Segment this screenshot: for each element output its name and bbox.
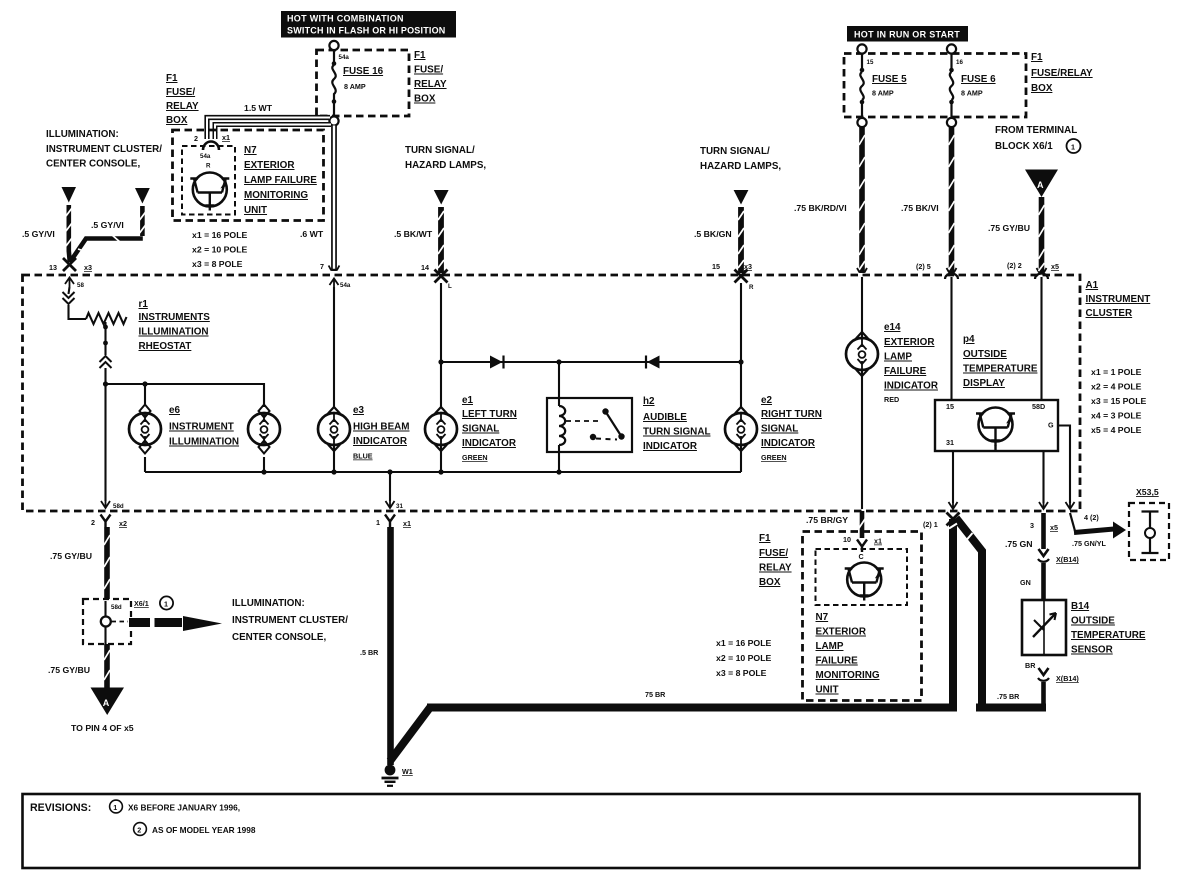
svg-text:58D: 58D: [1032, 402, 1045, 411]
svg-text:SIGNAL: SIGNAL: [462, 424, 499, 435]
svg-text:N7: N7: [816, 612, 829, 623]
svg-text:54a: 54a: [200, 153, 211, 160]
svg-text:INSTRUMENTS: INSTRUMENTS: [139, 312, 211, 323]
svg-text:FAILURE: FAILURE: [884, 366, 927, 377]
N7 exterior lamp failure monitoring unit (bottom) outer dashed box: [803, 532, 922, 701]
p4 temperature sensor wire down: [1042, 451, 1044, 503]
diode bus wire between turn signal circuits: [441, 361, 741, 363]
wire pin 15 down to right turn lamp: [740, 283, 742, 407]
svg-text:REVISIONS:: REVISIONS:: [30, 802, 91, 814]
svg-text:x2: x2: [119, 519, 127, 528]
svg-text:.5 BR: .5 BR: [360, 648, 379, 657]
label e2 RIGHT TURN SIGNAL INDICATOR GREEN: [761, 395, 822, 462]
svg-text:31: 31: [946, 438, 954, 447]
svg-text:TURN SIGNAL: TURN SIGNAL: [643, 427, 710, 438]
svg-text:16: 16: [956, 59, 963, 66]
svg-text:SENSOR: SENSOR: [1071, 645, 1113, 656]
svg-text:31: 31: [396, 503, 403, 510]
svg-text:(2) 5: (2) 5: [916, 262, 931, 271]
label B14 OUTSIDE TEMPERATURE SENSOR: [1071, 601, 1146, 656]
legend x1/x2/x3 poles (left): [192, 230, 247, 269]
svg-text:CENTER CONSOLE,: CENTER CONSOLE,: [232, 632, 326, 643]
fuse F6 terminal circle top: [947, 44, 956, 53]
svg-text:.75 GN/YL: .75 GN/YL: [1072, 539, 1107, 548]
svg-text:54a: 54a: [340, 282, 351, 289]
ground wire diagonal up to 75 BR bus: [390, 708, 430, 762]
wire fuse6 branch down to p4 pin 15: [950, 277, 952, 400]
arrowheads into bottom edge: [949, 500, 958, 509]
svg-text:.75 GN: .75 GN: [1005, 539, 1033, 549]
svg-text:10: 10: [843, 535, 851, 544]
svg-text:e2: e2: [761, 395, 772, 406]
N7 exterior lamp failure monitoring unit (top) outer dashed box: [173, 130, 324, 221]
label e3 HIGH BEAM INDICATOR BLUE: [353, 405, 410, 461]
legend x1/x2/x3 poles (bottom): [716, 638, 771, 678]
svg-text:x1 = 16 POLE: x1 = 16 POLE: [716, 638, 771, 648]
pin 1 arrow and label 31 above bottom edge: [386, 499, 395, 508]
svg-text:F1: F1: [1031, 52, 1043, 63]
svg-text:x2 = 10 POLE: x2 = 10 POLE: [192, 245, 247, 255]
pin Y connector at pin 1: [385, 515, 395, 528]
lamp e1 left turn signal indicator: [425, 407, 457, 472]
svg-text:SIGNAL: SIGNAL: [761, 424, 798, 435]
svg-text:e14: e14: [884, 322, 901, 333]
N7 pin semicircle connector (pins 2 / x1): [203, 142, 219, 151]
connector X at pin 14: [435, 270, 448, 283]
wire .5 GY/VI (right): [70, 206, 146, 262]
svg-text:.75 GY/BU: .75 GY/BU: [50, 551, 92, 561]
wire bus to instrument illumination lamps: [106, 384, 265, 407]
connector X below pin (2)1: [947, 513, 960, 526]
svg-text:1: 1: [1071, 143, 1075, 152]
svg-text:FAILURE: FAILURE: [816, 656, 859, 667]
label FROM TERMINAL BLOCK X6/1: [995, 125, 1077, 152]
svg-text:RHEOSTAT: RHEOSTAT: [139, 341, 192, 352]
svg-text:INDICATOR: INDICATOR: [761, 438, 815, 449]
svg-text:N7: N7: [244, 145, 257, 156]
svg-text:AS OF MODEL YEAR 1998: AS OF MODEL YEAR 1998: [152, 825, 256, 835]
svg-text:BR: BR: [1025, 661, 1036, 670]
svg-text:X53,5: X53,5: [1136, 487, 1159, 497]
wire through X6/1: [104, 601, 106, 617]
lamp e3 high beam indicator: [318, 407, 350, 472]
svg-text:FUSE 6: FUSE 6: [961, 74, 996, 85]
svg-text:L: L: [448, 283, 452, 290]
svg-text:FUSE/: FUSE/: [759, 548, 788, 559]
off-page triangle (illumination left): [62, 187, 77, 203]
thick wire from pin (2)1 down to ground bus: [949, 519, 957, 704]
svg-text:15: 15: [946, 402, 954, 411]
svg-text:x2 = 10 POLE: x2 = 10 POLE: [716, 653, 771, 663]
svg-text:G: G: [1048, 421, 1054, 430]
wire fuse5 branch down to e14 lamp: [861, 277, 863, 338]
svg-text:.75 BR/GY: .75 BR/GY: [806, 515, 848, 525]
svg-text:ILLUMINATION: ILLUMINATION: [169, 437, 239, 448]
svg-text:8 AMP: 8 AMP: [961, 89, 983, 98]
label A1 INSTRUMENT CLUSTER: [1086, 280, 1151, 319]
svg-text:4 (2): 4 (2): [1084, 513, 1099, 522]
hatch marks on thick wires: [949, 524, 973, 541]
terminal circle below fuse box: [329, 116, 338, 125]
svg-text:INDICATOR: INDICATOR: [462, 438, 516, 449]
wire 1.5 WT outlined pair from fuse to N7 pins: [207, 118, 331, 140]
svg-text:RELAY: RELAY: [166, 101, 199, 112]
svg-text:.75 BK/VI: .75 BK/VI: [901, 203, 939, 213]
lamp e6 instrument illumination (left bulb): [129, 405, 161, 473]
svg-text:INSTRUMENT CLUSTER/: INSTRUMENT CLUSTER/: [232, 615, 348, 626]
wire pin 7 down to high beam lamp: [333, 287, 335, 407]
connector X crossing at pin 13: [63, 258, 76, 271]
svg-text:A: A: [1037, 180, 1044, 190]
fuse F16 element: [332, 50, 337, 116]
svg-text:RIGHT TURN: RIGHT TURN: [761, 409, 822, 420]
svg-text:INSTRUMENT: INSTRUMENT: [169, 422, 234, 433]
wire .75 GY/BU from X6/1 to triangle A: [104, 644, 110, 688]
connector X(B14) lower: [1038, 668, 1049, 681]
wire bus drop to pin 1: [389, 472, 391, 501]
svg-text:e1: e1: [462, 395, 473, 406]
label ILLUMINATION: INSTRUMENT CLUSTER/ CENTER CONSOLE. (bottom): [232, 598, 348, 643]
svg-text:DISPLAY: DISPLAY: [963, 378, 1005, 389]
svg-text:FUSE 5: FUSE 5: [872, 74, 907, 85]
svg-text:LAMP: LAMP: [816, 641, 844, 652]
wire .5 BK/GN: [738, 207, 744, 273]
diode D2 (right, pointing left): [646, 356, 660, 369]
svg-text:15: 15: [867, 59, 874, 66]
wire .75 BK/VI from fuse 6 down to cluster: [949, 127, 955, 273]
svg-text:58: 58: [77, 282, 84, 289]
wire .75 GY/BU from pin 2 to connector X6/1: [104, 527, 110, 599]
cup connector at pin (2)5: [945, 274, 958, 280]
connector X53/5 dashed box: [1129, 503, 1169, 560]
svg-text:LEFT TURN: LEFT TURN: [462, 409, 517, 420]
wire down from bus to lamp e6a: [144, 384, 146, 406]
svg-text:1.5 WT: 1.5 WT: [244, 103, 273, 113]
transistor inside p4: [976, 408, 1015, 452]
svg-text:MONITORING: MONITORING: [816, 670, 880, 681]
label ILLUMINATION: INSTRUMENT CLUSTER/ CENTER CONSOLE. (top left): [46, 129, 162, 170]
svg-text:.75 BK/RD/VI: .75 BK/RD/VI: [794, 203, 847, 213]
svg-text:BOX: BOX: [414, 94, 436, 105]
svg-text:TURN SIGNAL/: TURN SIGNAL/: [700, 146, 770, 157]
lamp e6 instrument illumination (right bulb): [248, 405, 280, 473]
svg-text:1: 1: [164, 600, 168, 609]
label h2 AUDIBLE TURN SIGNAL INDICATOR: [643, 396, 710, 452]
svg-text:2: 2: [194, 134, 198, 143]
svg-text:LAMP: LAMP: [884, 352, 912, 363]
svg-text:A1: A1: [1086, 280, 1099, 291]
svg-text:RED: RED: [884, 395, 899, 404]
label F1 FUSE/RELAY BOX (top right): [1031, 52, 1093, 94]
svg-text:(2) 1: (2) 1: [923, 520, 938, 529]
off-page triangle turn signal left: [434, 190, 449, 205]
svg-text:F1: F1: [166, 73, 178, 84]
svg-text:HOT WITH COMBINATION: HOT WITH COMBINATION: [287, 14, 404, 24]
svg-text:HAZARD LAMPS,: HAZARD LAMPS,: [405, 160, 486, 171]
diode D1 (left, pointing right): [490, 356, 504, 369]
wire illumination branch down to p4 pin 58d: [1040, 277, 1042, 400]
svg-text:INSTRUMENT: INSTRUMENT: [1086, 294, 1151, 305]
wire .5 BR thick from pin 1 to ground: [387, 527, 394, 765]
svg-text:TURN SIGNAL/: TURN SIGNAL/: [405, 145, 475, 156]
svg-text:54a: 54a: [339, 54, 350, 61]
off-page triangle A (from terminal block): [1025, 170, 1058, 198]
svg-text:.75 BR: .75 BR: [997, 692, 1020, 701]
svg-text:75 BR: 75 BR: [645, 690, 666, 699]
svg-text:x5 = 4 POLE: x5 = 4 POLE: [1091, 425, 1142, 435]
svg-text:CLUSTER: CLUSTER: [1086, 308, 1133, 319]
svg-text:F1: F1: [414, 50, 426, 61]
thick branch wire diagonal to second vertical: [956, 518, 982, 704]
svg-text:x1 = 1 POLE: x1 = 1 POLE: [1091, 367, 1142, 377]
svg-text:HOT IN RUN OR START: HOT IN RUN OR START: [854, 30, 960, 40]
wire .75 BR from sensor to ground bus: [1041, 682, 1046, 706]
svg-text:INDICATOR: INDICATOR: [884, 381, 938, 392]
svg-text:RELAY: RELAY: [759, 563, 792, 574]
N7 pin 10 cup connector: [857, 540, 867, 553]
svg-text:15: 15: [712, 262, 720, 271]
wire from pin 13 to rheostat with connector chevrons: [63, 287, 87, 319]
svg-text:x1: x1: [403, 519, 411, 528]
cup connector at pin (2)2: [1035, 274, 1048, 280]
svg-text:MONITORING: MONITORING: [244, 190, 308, 201]
svg-text:58d: 58d: [111, 604, 122, 611]
svg-text:BLUE: BLUE: [353, 452, 373, 461]
svg-text:x3: x3: [744, 262, 752, 271]
h2 coil on vertical wire: [559, 362, 565, 472]
svg-text:FUSE/: FUSE/: [166, 87, 195, 98]
svg-text:BOX: BOX: [759, 577, 781, 588]
fuse/relay box F1 (top right, dashed): [844, 54, 1026, 118]
label p4 OUTSIDE TEMPERATURE DISPLAY: [963, 334, 1038, 389]
label r1 INSTRUMENTS ILLUMINATION RHEOSTAT: [139, 299, 211, 352]
svg-text:LAMP FAILURE: LAMP FAILURE: [244, 175, 317, 186]
svg-text:HIGH BEAM: HIGH BEAM: [353, 422, 410, 433]
X53/5 internal connector symbol: [1142, 512, 1159, 554]
svg-text:INDICATOR: INDICATOR: [353, 436, 407, 447]
legend x1..x5 poles (right): [1091, 367, 1146, 435]
svg-text:BLOCK X6/1: BLOCK X6/1: [995, 141, 1053, 152]
svg-text:EXTERIOR: EXTERIOR: [244, 160, 294, 171]
terminal 58 arrow below pin 13: [65, 278, 74, 288]
svg-text:ILLUMINATION: ILLUMINATION: [139, 327, 209, 338]
svg-text:EXTERIOR: EXTERIOR: [884, 337, 934, 348]
svg-text:13: 13: [49, 263, 57, 272]
svg-text:CENTER CONSOLE,: CENTER CONSOLE,: [46, 159, 140, 170]
svg-text:x1 = 16 POLE: x1 = 16 POLE: [192, 230, 247, 240]
svg-text:UNIT: UNIT: [816, 685, 839, 696]
svg-text:UNIT: UNIT: [244, 205, 267, 216]
svg-text:x1: x1: [222, 133, 230, 142]
wire pin 14 down to left turn lamp: [440, 283, 442, 407]
svg-text:EXTERIOR: EXTERIOR: [816, 627, 866, 638]
circled 1 revision marker (X6/1): [160, 596, 173, 609]
label TURN SIGNAL/ HAZARD LAMPS. (right): [700, 146, 781, 172]
wire .75 BR/GY from e14 through bottom edge to N7 pin 10: [859, 511, 865, 538]
fuse F6 element: [949, 54, 954, 119]
label N7 EXTERIOR LAMP FAILURE MONITORING UNIT (bottom): [816, 612, 880, 696]
p4 pin 31 wire down: [952, 451, 954, 503]
wire GN to sensor: [1041, 563, 1046, 600]
revisions box: [23, 794, 1140, 868]
terminal circle at top of fuse 16: [329, 41, 338, 50]
svg-text:B14: B14: [1071, 601, 1090, 612]
svg-text:OUTSIDE: OUTSIDE: [1071, 616, 1115, 627]
label e14 EXTERIOR LAMP FAILURE INDICATOR RED: [884, 322, 938, 404]
label e6 INSTRUMENT ILLUMINATION: [169, 405, 239, 448]
svg-text:SWITCH IN FLASH OR HI POSITION: SWITCH IN FLASH OR HI POSITION: [287, 26, 446, 36]
svg-text:2: 2: [137, 826, 141, 835]
svg-text:1: 1: [376, 518, 380, 527]
svg-text:x3: x3: [84, 263, 92, 272]
svg-text:OUTSIDE: OUTSIDE: [963, 349, 1007, 360]
svg-text:x3 = 8 POLE: x3 = 8 POLE: [192, 259, 243, 269]
lamp bottom bus wire (31): [145, 471, 741, 473]
instrument cluster A1 dashed boundary box: [23, 275, 1081, 511]
svg-text:14: 14: [421, 263, 429, 272]
connector X at pin 15: [735, 270, 748, 283]
wire .75 GN/YL from pin 4 to connector X53/5: [1070, 513, 1126, 539]
svg-text:C: C: [859, 552, 864, 561]
svg-text:X(B14): X(B14): [1056, 555, 1079, 564]
label TURN SIGNAL/ HAZARD LAMPS. (left): [405, 145, 486, 171]
svg-text:GREEN: GREEN: [761, 453, 787, 462]
svg-text:x1: x1: [874, 537, 882, 546]
svg-text:FUSE 16: FUSE 16: [343, 66, 384, 77]
banner: HOT IN RUN OR START: [847, 26, 968, 42]
svg-text:1: 1: [113, 803, 117, 812]
svg-text:7: 7: [320, 262, 324, 271]
X6/1 terminal circle: [101, 617, 111, 627]
svg-text:8 AMP: 8 AMP: [344, 82, 366, 91]
circled 1 revision marker: [1067, 139, 1081, 153]
p4 G output wire to pin 4: [1058, 426, 1070, 504]
off-page triangle (illumination right): [135, 188, 150, 204]
revisions text: [30, 800, 256, 835]
svg-text:.5 BK/GN: .5 BK/GN: [694, 229, 732, 239]
svg-text:.5 GY/VI: .5 GY/VI: [22, 229, 55, 239]
svg-text:.5 BK/WT: .5 BK/WT: [394, 229, 433, 239]
fuse F5 terminal circle top: [857, 44, 866, 53]
off-page triangle A (to pin 4 of x5): [91, 688, 125, 716]
svg-text:e6: e6: [169, 405, 180, 416]
svg-text:R: R: [206, 163, 211, 170]
lamp e2 right turn signal indicator: [725, 407, 757, 472]
svg-text:INDICATOR: INDICATOR: [643, 441, 697, 452]
label F1 FUSE/RELAY BOX (left, for N7 feed): [166, 73, 199, 126]
svg-text:X(B14): X(B14): [1056, 674, 1079, 683]
relay h2 audible turn signal indicator box: [547, 398, 632, 452]
label F1 FUSE/RELAY BOX (bottom): [759, 533, 792, 588]
svg-text:2: 2: [91, 518, 95, 527]
svg-text:p4: p4: [963, 334, 975, 345]
svg-text:(2) 2: (2) 2: [1007, 261, 1022, 270]
svg-text:R: R: [749, 284, 754, 291]
label N7 EXTERIOR LAMP FAILURE MONITORING UNIT: [244, 145, 317, 216]
svg-text:.5 GY/VI: .5 GY/VI: [91, 220, 124, 230]
wire .75 BK/RD/VI from fuse 5 down to cluster: [859, 127, 865, 273]
ground bus segment right .75 BR: [976, 704, 1046, 712]
svg-text:TEMPERATURE: TEMPERATURE: [1071, 630, 1146, 641]
wire from rheostat junction down to pin 2: [104, 386, 106, 501]
svg-text:x2 = 4 POLE: x2 = 4 POLE: [1091, 382, 1142, 392]
svg-text:h2: h2: [643, 396, 655, 407]
wire .6 WT outlined vertical from fuse16 to cluster pin 7: [329, 126, 340, 272]
svg-text:F1: F1: [759, 533, 771, 544]
svg-text:X6 BEFORE JANUARY 1996,: X6 BEFORE JANUARY 1996,: [128, 803, 240, 813]
svg-text:8 AMP: 8 AMP: [872, 89, 894, 98]
svg-text:.75 GY/BU: .75 GY/BU: [48, 665, 90, 675]
svg-text:GREEN: GREEN: [462, 453, 488, 462]
svg-text:A: A: [103, 698, 110, 708]
svg-text:W1: W1: [402, 767, 413, 776]
svg-text:r1: r1: [139, 299, 149, 310]
wire .75 GY/BU from triangle A down to cluster: [1039, 197, 1045, 273]
junction node at rheostat output: [103, 381, 108, 386]
svg-text:FUSE/RELAY: FUSE/RELAY: [1031, 68, 1093, 79]
connector X(B14) upper: [1038, 549, 1049, 562]
ground bus 75 BR: [427, 704, 957, 712]
B14 outside temperature sensor box: [1022, 600, 1066, 655]
svg-text:FUSE/: FUSE/: [414, 65, 443, 76]
svg-text:ILLUMINATION:: ILLUMINATION:: [232, 598, 305, 609]
svg-text:.6 WT: .6 WT: [300, 229, 324, 239]
svg-text:X6/1: X6/1: [134, 599, 149, 608]
svg-text:RELAY: RELAY: [414, 79, 447, 90]
off-page triangle turn signal right: [734, 190, 749, 205]
ground symbol W1: [382, 765, 399, 786]
transistor inside N7 (bottom): [845, 563, 884, 601]
svg-text:x5: x5: [1050, 523, 1058, 532]
N7 inner dashed box: [182, 146, 235, 215]
fuse/relay box F1 (top left, dashed): [317, 50, 410, 116]
fuse F5 element: [860, 54, 865, 119]
transistor inside N7 (top): [190, 173, 229, 211]
svg-text:FROM TERMINAL: FROM TERMINAL: [995, 125, 1077, 136]
wire .5 BK/WT: [438, 207, 444, 273]
svg-text:x3 = 8 POLE: x3 = 8 POLE: [716, 668, 767, 678]
svg-text:INSTRUMENT CLUSTER/: INSTRUMENT CLUSTER/: [46, 144, 162, 155]
h2 switch contact: [566, 408, 625, 440]
label F1 FUSE/RELAY BOX (right of fuse 16 box): [414, 50, 447, 105]
svg-text:HAZARD LAMPS,: HAZARD LAMPS,: [700, 161, 781, 172]
wire .75 GN from pin 3 to connector X(B14): [1041, 513, 1046, 549]
p4 outside temperature display box: [935, 400, 1058, 451]
wire .5 GY/VI (left): [66, 205, 72, 262]
N7 (bottom) inner dashed box: [816, 549, 908, 605]
svg-text:GN: GN: [1020, 578, 1031, 587]
svg-text:AUDIBLE: AUDIBLE: [643, 412, 687, 423]
label e1 LEFT TURN SIGNAL INDICATOR GREEN: [462, 395, 517, 462]
svg-text:58d: 58d: [113, 503, 124, 510]
svg-text:e3: e3: [353, 405, 364, 416]
rheostat r1 zigzag: [86, 313, 127, 324]
lamp e14 exterior lamp failure indicator: [846, 332, 878, 509]
svg-text:x5: x5: [1051, 262, 1059, 271]
pin 7 terminal 54a arrow below edge: [330, 279, 339, 289]
thick dashed arrow to illumination: [129, 616, 222, 631]
svg-text:ILLUMINATION:: ILLUMINATION:: [46, 129, 119, 140]
svg-text:x4 = 3 POLE: x4 = 3 POLE: [1091, 411, 1142, 421]
svg-text:BOX: BOX: [166, 115, 188, 126]
svg-text:3: 3: [1030, 521, 1034, 530]
banner: HOT WITH COMBINATION SWITCH IN FLASH OR HI POSITION: [281, 11, 456, 38]
svg-text:x3 = 15 POLE: x3 = 15 POLE: [1091, 396, 1146, 406]
svg-text:TEMPERATURE: TEMPERATURE: [963, 364, 1038, 375]
rheostat wiper wire down to junction: [100, 322, 112, 384]
svg-text:BOX: BOX: [1031, 83, 1053, 94]
pin Y connector at pin 2: [101, 515, 111, 528]
